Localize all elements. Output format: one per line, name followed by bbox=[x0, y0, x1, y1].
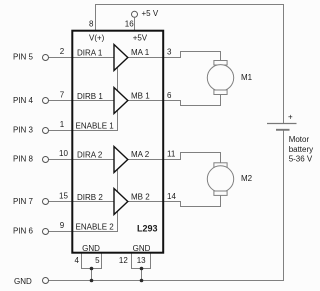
svg-text:DIRA 1: DIRA 1 bbox=[77, 49, 103, 58]
svg-text:GND: GND bbox=[82, 244, 100, 253]
svg-text:PIN 7: PIN 7 bbox=[13, 197, 34, 206]
svg-text:4: 4 bbox=[75, 256, 80, 265]
junction dot on ground rail left bbox=[90, 279, 94, 283]
wire +V rail from pin 8 to battery + bbox=[96, 5, 284, 124]
svg-text:6: 6 bbox=[167, 91, 172, 100]
junction dot on ground rail right bbox=[140, 279, 144, 283]
wire MB2 output row with jog from motor M2 bottom bbox=[164, 195, 221, 206]
terminal PIN8 bbox=[43, 157, 49, 163]
svg-text:11: 11 bbox=[167, 150, 176, 159]
svg-text:7: 7 bbox=[60, 90, 65, 99]
wire battery - to ground rail bbox=[49, 131, 284, 281]
svg-text:M1: M1 bbox=[241, 73, 253, 82]
svg-text:L293: L293 bbox=[137, 224, 158, 234]
svg-text:DIRA 2: DIRA 2 bbox=[77, 151, 103, 160]
op-amp buffer MA2 bbox=[114, 147, 128, 173]
wire GND pins 4,5 tie bbox=[82, 254, 102, 269]
wire MA2 output row with jog to motor M2 top bbox=[128, 153, 221, 163]
terminal PIN4 bbox=[43, 98, 49, 104]
svg-text:GND: GND bbox=[14, 277, 32, 286]
svg-text:MA 2: MA 2 bbox=[131, 150, 150, 159]
wire MB1 inside IC bbox=[128, 100, 164, 102]
svg-text:+5 V: +5 V bbox=[142, 9, 159, 18]
junction dot pins 12,13 tie bbox=[140, 267, 144, 271]
svg-text:V(+): V(+) bbox=[89, 34, 105, 43]
wire ENABLE1 (PIN3) bbox=[49, 67, 118, 131]
wire DIRA1 input row (PIN5 to buffer) bbox=[49, 57, 115, 59]
svg-text:2: 2 bbox=[60, 47, 65, 56]
svg-text:MB 1: MB 1 bbox=[131, 92, 150, 101]
svg-text:12: 12 bbox=[119, 256, 128, 265]
svg-text:1: 1 bbox=[60, 120, 65, 129]
motor M1 bottom brush tab bbox=[214, 90, 227, 95]
svg-text:battery: battery bbox=[289, 145, 313, 154]
wire DIRA2 input row (PIN8 to buffer) bbox=[49, 159, 115, 161]
terminal GND bbox=[43, 278, 49, 284]
wire MB2 inside IC bbox=[128, 201, 164, 203]
svg-text:Motor: Motor bbox=[289, 135, 310, 144]
junction dot pins 4,5 tie bbox=[90, 267, 94, 271]
ground rail GND node bbox=[49, 280, 284, 282]
svg-text:10: 10 bbox=[59, 149, 68, 158]
svg-text:8: 8 bbox=[89, 19, 94, 28]
motor M1 body bbox=[207, 65, 233, 91]
op-amp buffer MB2 bbox=[114, 189, 128, 215]
svg-text:5-36 V: 5-36 V bbox=[289, 155, 313, 164]
svg-text:PIN 6: PIN 6 bbox=[13, 227, 34, 236]
wire GND pins 12,13 tie bbox=[132, 254, 151, 269]
svg-text:DIRB 1: DIRB 1 bbox=[77, 92, 103, 101]
svg-text:MA 1: MA 1 bbox=[131, 48, 150, 57]
svg-text:PIN 5: PIN 5 bbox=[13, 53, 34, 62]
op-amp buffer MB1 bbox=[114, 88, 128, 114]
svg-text:GND: GND bbox=[133, 244, 151, 253]
svg-text:5: 5 bbox=[95, 256, 100, 265]
motor M2 top brush tab bbox=[214, 163, 227, 167]
battery B1 positive plate bbox=[267, 123, 297, 125]
wire DIRB2 input row (PIN7 to buffer) bbox=[49, 201, 115, 203]
terminal +5V (pin 16 supply) bbox=[132, 11, 138, 17]
svg-text:9: 9 bbox=[60, 221, 65, 230]
wire GND pins 4,5 down to rail bbox=[91, 269, 93, 281]
terminal PIN5 bbox=[43, 55, 49, 61]
wire MA1 output row with jog to motor M1 top bbox=[128, 52, 221, 61]
svg-text:MB 2: MB 2 bbox=[131, 193, 150, 202]
terminal PIN6 bbox=[43, 229, 49, 235]
motor M2 bottom brush tab bbox=[214, 191, 227, 195]
wire MB1 output row with jog from motor M1 bottom bbox=[164, 95, 221, 106]
svg-text:M2: M2 bbox=[241, 174, 253, 183]
motor M2 body bbox=[207, 166, 233, 192]
svg-text:13: 13 bbox=[137, 256, 146, 265]
terminal PIN3 bbox=[43, 128, 49, 134]
svg-text:16: 16 bbox=[125, 19, 134, 28]
op-amp buffer MA1 bbox=[114, 45, 128, 71]
svg-text:DIRB 2: DIRB 2 bbox=[77, 193, 103, 202]
svg-text:ENABLE 1: ENABLE 1 bbox=[76, 122, 115, 131]
wire pin 16 stub bbox=[134, 17, 136, 30]
svg-text:15: 15 bbox=[59, 191, 68, 200]
svg-text:14: 14 bbox=[167, 192, 176, 201]
wire GND pins 12,13 down to rail bbox=[141, 269, 143, 281]
wire ENABLE2 (PIN6) bbox=[49, 169, 118, 232]
motor M1 top brush tab bbox=[214, 61, 227, 66]
svg-text:+5V: +5V bbox=[133, 34, 148, 43]
svg-text:+: + bbox=[288, 113, 293, 122]
svg-text:PIN 3: PIN 3 bbox=[13, 126, 34, 135]
svg-text:PIN 4: PIN 4 bbox=[13, 96, 34, 105]
IC U1 L293 package outline bbox=[72, 31, 163, 253]
svg-text:ENABLE 2: ENABLE 2 bbox=[76, 223, 115, 232]
svg-text:3: 3 bbox=[167, 48, 172, 57]
wire DIRB1 input row (PIN4 to buffer) bbox=[49, 100, 115, 102]
battery B1 negative plate bbox=[276, 129, 290, 131]
terminal PIN7 bbox=[43, 199, 49, 205]
svg-text:PIN 8: PIN 8 bbox=[13, 155, 34, 164]
